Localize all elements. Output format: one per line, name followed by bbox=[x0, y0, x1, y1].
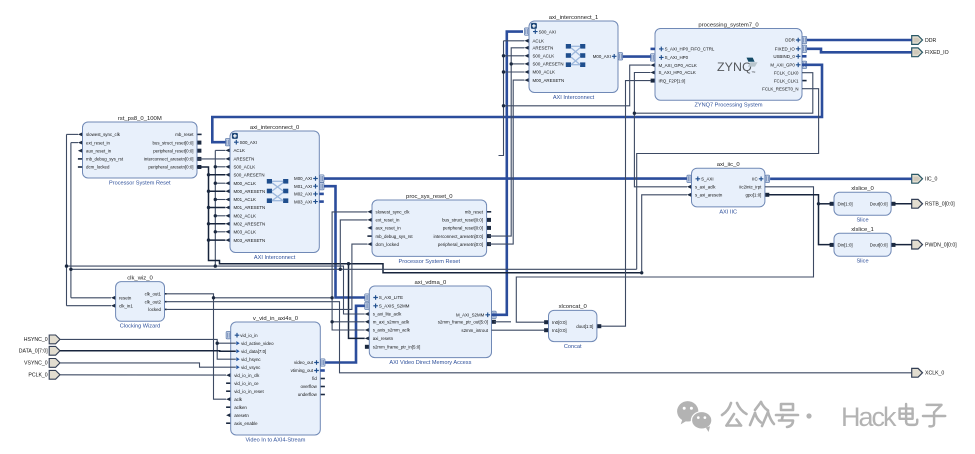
svg-text:Dout[0:0]: Dout[0:0] bbox=[870, 202, 888, 207]
block processing_system7_0 ZYNQ7 Processing System bbox=[650, 22, 806, 108]
svg-text:PWDN_0[0:0]: PWDN_0[0:0] bbox=[925, 243, 957, 249]
svg-text:bus_struct_reset[0:0]: bus_struct_reset[0:0] bbox=[152, 140, 193, 145]
svg-text:S00_ACLK: S00_ACLK bbox=[234, 165, 256, 170]
svg-text:clk_out2: clk_out2 bbox=[145, 299, 162, 304]
wire reset trunk left bbox=[70, 143, 72, 298]
svg-text:S00_ARESETN: S00_ARESETN bbox=[533, 62, 564, 67]
block axi_iic_0 AXI IIC bbox=[687, 162, 770, 215]
svg-text:mb_debug_sys_rst: mb_debug_sys_rst bbox=[86, 157, 124, 162]
svg-text:s_axi_aclk: s_axi_aclk bbox=[695, 185, 716, 190]
svg-text:Dout[0:0]: Dout[0:0] bbox=[870, 243, 888, 248]
svg-text:M01_ACLK: M01_ACLK bbox=[234, 197, 257, 202]
wire clock link to M_AXI_GP0_ACLK riser bbox=[504, 65, 651, 106]
svg-text:peripheral_aresetn[0:0]: peripheral_aresetn[0:0] bbox=[148, 165, 193, 170]
svg-text:vid_io_in: vid_io_in bbox=[240, 333, 258, 338]
svg-text:M00_AXI: M00_AXI bbox=[593, 54, 611, 59]
svg-text:M03_ACLK: M03_ACLK bbox=[234, 230, 257, 235]
svg-text:M00_ARESETN: M00_ARESETN bbox=[533, 78, 565, 83]
svg-text:aux_reset_in: aux_reset_in bbox=[86, 148, 112, 153]
svg-text:proc_sys_reset_0: proc_sys_reset_0 bbox=[406, 194, 453, 200]
svg-text:aresetn: aresetn bbox=[234, 413, 249, 418]
svg-text:axis_enable: axis_enable bbox=[234, 421, 258, 426]
svg-text:v_vid_in_axi4s_0: v_vid_in_axi4s_0 bbox=[253, 316, 299, 322]
svg-text:Clocking Wizard: Clocking Wizard bbox=[120, 324, 160, 330]
wire video_out to S_AXIS_S2MM bus bbox=[325, 306, 365, 363]
block rst_ps8_0_100M Processor System Reset bbox=[78, 116, 202, 187]
svg-text:S00_ARESETN: S00_ARESETN bbox=[234, 173, 265, 178]
wire proc interconnect_aresetn to interconnect_1 ARESETN bbox=[489, 48, 525, 236]
block xlslice_1 Slice bbox=[830, 227, 896, 265]
output port FIXED_IO bbox=[912, 48, 949, 57]
input port HSYNC_0 bbox=[24, 335, 60, 344]
svg-text:DDR: DDR bbox=[785, 38, 795, 43]
svg-text:s2mm_frame_ptr_in[5:0]: s2mm_frame_ptr_in[5:0] bbox=[373, 345, 421, 350]
wire M00_AXI to axi_iic S_AXI bus bbox=[324, 177, 687, 180]
svg-text:HSYNC_0: HSYNC_0 bbox=[24, 337, 48, 343]
watermark text gongzhonghao hack dianzi bbox=[722, 402, 945, 432]
svg-text:axi_vdma_0: axi_vdma_0 bbox=[415, 280, 447, 286]
svg-text:rst_ps8_0_100M: rst_ps8_0_100M bbox=[118, 116, 162, 122]
svg-text:s_axi_aresetn: s_axi_aresetn bbox=[695, 193, 723, 198]
svg-text:ZYNQ: ZYNQ bbox=[717, 60, 752, 74]
svg-text:peripheral_aresetn[0:0]: peripheral_aresetn[0:0] bbox=[438, 242, 483, 247]
svg-text:Slice: Slice bbox=[856, 259, 868, 265]
svg-text:AXI Video Direct Memory Access: AXI Video Direct Memory Access bbox=[389, 360, 471, 366]
wire IIC bus to external port bbox=[770, 178, 912, 181]
watermark wechat icon bbox=[677, 401, 712, 432]
wire peripheral_aresetn branch to vdma axi_resetn bbox=[349, 264, 365, 339]
wire M01_AXI to axi_vdma S_AXI_LITE bus bbox=[324, 186, 365, 297]
svg-text:DDR: DDR bbox=[925, 38, 936, 44]
svg-text:M_AXI_GP0_ACLK: M_AXI_GP0_ACLK bbox=[659, 63, 697, 68]
svg-text:VSYNC_0: VSYNC_0 bbox=[24, 361, 48, 367]
wire PCLK_0 to vid_io_in_clk bbox=[60, 374, 226, 376]
svg-text:clk_wiz_0: clk_wiz_0 bbox=[127, 275, 153, 281]
svg-text:ACLK: ACLK bbox=[234, 148, 246, 153]
svg-text:M01_ARESETN: M01_ARESETN bbox=[234, 205, 266, 210]
svg-text:axi_interconnect_1: axi_interconnect_1 bbox=[549, 15, 598, 21]
svg-text:ACLK: ACLK bbox=[533, 39, 545, 44]
svg-text:m_axi_s2mm_aclk: m_axi_s2mm_aclk bbox=[373, 320, 410, 325]
svg-text:xlslice_0: xlslice_0 bbox=[851, 186, 874, 192]
svg-text:M00_ARESETN: M00_ARESETN bbox=[234, 189, 266, 194]
svg-text:ZYNQ7 Processing System: ZYNQ7 Processing System bbox=[694, 103, 762, 109]
svg-text:S00_AXI: S00_AXI bbox=[539, 29, 556, 34]
wire stub vid_active_video bbox=[217, 342, 236, 344]
svg-text:IRQ_F2P[1:0]: IRQ_F2P[1:0] bbox=[659, 78, 686, 83]
block proc_sys_reset_0 Processor System Reset bbox=[367, 194, 491, 265]
svg-text:mb_reset: mb_reset bbox=[175, 132, 194, 137]
svg-text:Din[1:0]: Din[1:0] bbox=[838, 202, 853, 207]
block xlslice_0 Slice bbox=[830, 186, 896, 224]
wire clock trunk to rst_ps8 slowest_sync_clk and clk_in1 bbox=[66, 134, 68, 305]
svg-text:ext_reset_in: ext_reset_in bbox=[376, 218, 400, 223]
svg-text:slowest_sync_clk: slowest_sync_clk bbox=[376, 210, 411, 215]
svg-text:S_AXIS_S2MM: S_AXIS_S2MM bbox=[379, 304, 410, 309]
svg-text:FCLK_RESET0_N: FCLK_RESET0_N bbox=[762, 86, 798, 91]
wire clk_out1 to vid aclk bbox=[167, 294, 226, 399]
wire stub S00_ARESETN bbox=[511, 63, 524, 65]
svg-text:peripheral_reset[0:0]: peripheral_reset[0:0] bbox=[153, 148, 193, 153]
svg-text:M_AXI_S2MM: M_AXI_S2MM bbox=[456, 313, 485, 318]
svg-text:FIXED_IO: FIXED_IO bbox=[775, 47, 796, 52]
wire riser to proc ext_reset_in bbox=[340, 220, 367, 269]
svg-text:AXI IIC: AXI IIC bbox=[719, 209, 737, 215]
wire concat dout to IRQ_F2P bbox=[601, 81, 651, 327]
svg-text:fid: fid bbox=[312, 376, 317, 381]
wire S_AXI_HP0_ACLK riser down to axi_iic s_axi_aclk bbox=[634, 73, 687, 187]
output port DDR bbox=[912, 36, 937, 45]
svg-text:slowest_sync_clk: slowest_sync_clk bbox=[86, 132, 121, 137]
wire HSYNC_0 to vid_active_video and vid_hsync bbox=[60, 339, 236, 359]
svg-text:Din[1:0]: Din[1:0] bbox=[838, 243, 853, 248]
svg-text:axi_interconnect_0: axi_interconnect_0 bbox=[250, 125, 300, 131]
svg-text:M00_ACLK: M00_ACLK bbox=[234, 181, 257, 186]
wire clk_out1 riser proc slowest and vdma aclks bbox=[332, 212, 367, 330]
svg-text:axi_resetn: axi_resetn bbox=[373, 336, 394, 341]
svg-text:FCLK_CLK1: FCLK_CLK1 bbox=[774, 78, 799, 83]
wire DATA_0 to vid_data bbox=[60, 350, 236, 352]
svg-text:Concat: Concat bbox=[564, 344, 582, 350]
wire stub slice0 din bbox=[819, 203, 831, 205]
svg-text:M02_ACLK: M02_ACLK bbox=[234, 214, 257, 219]
svg-text:S_AXI: S_AXI bbox=[701, 177, 713, 182]
svg-text:S00_ACLK: S00_ACLK bbox=[533, 54, 555, 59]
svg-text:M03_AXI: M03_AXI bbox=[294, 199, 312, 204]
wire stubs ARESETN rows bbox=[209, 175, 226, 240]
input port DATA_0[7:0] bbox=[19, 346, 60, 355]
svg-text:s2mm_introut: s2mm_introut bbox=[461, 328, 488, 333]
svg-text:Processor System Reset: Processor System Reset bbox=[109, 180, 171, 186]
svg-text:S_AXI_LITE: S_AXI_LITE bbox=[379, 295, 403, 300]
block clk_wiz_0 Clocking Wizard bbox=[111, 275, 167, 329]
svg-text:AXI Interconnect: AXI Interconnect bbox=[254, 255, 296, 261]
wire stubs ACLK rows bbox=[215, 150, 225, 231]
svg-text:IIC_0: IIC_0 bbox=[925, 177, 938, 183]
svg-text:ARESETN: ARESETN bbox=[234, 157, 255, 162]
wire DDR bus to external port bbox=[807, 39, 912, 42]
svg-text:Video In to AXI4-Stream: Video In to AXI4-Stream bbox=[246, 437, 306, 443]
svg-text:M03_ARESETN: M03_ARESETN bbox=[234, 238, 266, 243]
svg-text:PCLK_0: PCLK_0 bbox=[28, 373, 47, 379]
wire FCLK_CLK0 from PS7 bbox=[634, 73, 812, 114]
svg-text:vid_vsync: vid_vsync bbox=[241, 365, 261, 370]
svg-text:peripheral_reset[0:0]: peripheral_reset[0:0] bbox=[443, 226, 483, 231]
output port PWDN_0[0:0] bbox=[912, 240, 958, 249]
wire ACLK column axi_interconnect_0 bbox=[214, 150, 216, 266]
svg-text:processing_system7_0: processing_system7_0 bbox=[698, 22, 759, 28]
output port IIC_0 bbox=[912, 174, 938, 183]
svg-text:M02_ARESETN: M02_ARESETN bbox=[234, 222, 266, 227]
wire clock channel to clk_wiz and interconnect_0 bbox=[67, 266, 365, 314]
svg-text:FIXED_IO: FIXED_IO bbox=[925, 50, 949, 56]
wire FIXED_IO bus to external port bbox=[807, 49, 912, 53]
svg-text:overflow: overflow bbox=[300, 384, 317, 389]
svg-text:S00_AXI: S00_AXI bbox=[240, 140, 257, 145]
svg-text:vid_active_video: vid_active_video bbox=[241, 341, 274, 346]
svg-text:interconnect_aresetn[0:0]: interconnect_aresetn[0:0] bbox=[434, 234, 484, 239]
svg-text:bus_struct_reset[0:0]: bus_struct_reset[0:0] bbox=[442, 218, 483, 223]
wire slice0 Dout to RSTB_0 bbox=[895, 203, 911, 205]
svg-text:S_AXI_HP0_ACLK: S_AXI_HP0_ACLK bbox=[659, 70, 696, 75]
svg-text:iic2intc_irpt: iic2intc_irpt bbox=[739, 185, 762, 190]
wire iic2intc_irpt to concat In0 bbox=[516, 187, 813, 322]
svg-text:XCLK_0: XCLK_0 bbox=[925, 371, 944, 377]
svg-text:FCLK_CLK0: FCLK_CLK0 bbox=[774, 70, 799, 75]
svg-text:IIC: IIC bbox=[752, 177, 758, 182]
wire M_AXI_GP0 bus to axi_interconnect_0 S00_AXI bbox=[212, 65, 822, 142]
svg-text:underflow: underflow bbox=[298, 392, 318, 397]
svg-text:AXI Interconnect: AXI Interconnect bbox=[553, 95, 595, 101]
svg-text:In0[0:0]: In0[0:0] bbox=[552, 320, 567, 325]
svg-text:RSTB_0[0:0]: RSTB_0[0:0] bbox=[925, 202, 955, 208]
wire clk_out1 horizontal branch bbox=[214, 297, 333, 299]
svg-text:mb_reset: mb_reset bbox=[465, 210, 484, 215]
svg-text:xlslice_1: xlslice_1 bbox=[851, 227, 874, 233]
svg-text:S_AXI_HP0: S_AXI_HP0 bbox=[665, 55, 689, 60]
wire clk_out2 to XCLK bbox=[167, 302, 912, 373]
block xlconcat_0 Concat bbox=[544, 304, 601, 350]
wire s2mm_introut to concat In1 bbox=[492, 329, 545, 331]
svg-text:ARESETN: ARESETN bbox=[533, 46, 554, 51]
wire stub m_axi_s2mm_aclk bbox=[332, 321, 365, 323]
wire peripheral_aresetn net rst_ps8 bbox=[197, 167, 642, 273]
wire FCLK_RESET0_N down to channel bbox=[637, 89, 819, 270]
svg-text:s2mm_frame_ptr_out[5:0]: s2mm_frame_ptr_out[5:0] bbox=[438, 320, 488, 325]
output port RSTB_0[0:0] bbox=[912, 199, 956, 208]
svg-text:clk_in1: clk_in1 bbox=[119, 303, 133, 308]
svg-text:vid_io_in_reset: vid_io_in_reset bbox=[234, 389, 264, 394]
svg-text:xlconcat_0: xlconcat_0 bbox=[559, 304, 588, 310]
wire s2mm_frame_ptr_out stub bbox=[494, 321, 511, 323]
wire locked to proc dcm_locked bbox=[167, 244, 368, 309]
wire stub clk_in1 bbox=[67, 305, 112, 307]
wire stub resetn bbox=[71, 297, 111, 299]
svg-text:S_AXI_HP0_FIFO_CTRL: S_AXI_HP0_FIFO_CTRL bbox=[665, 47, 715, 52]
svg-text:Slice: Slice bbox=[856, 218, 868, 224]
svg-text:dcm_locked: dcm_locked bbox=[376, 242, 400, 247]
wire slice1 Dout to PWDN_0 bbox=[895, 244, 911, 246]
svg-text:Hack: Hack bbox=[841, 402, 897, 432]
svg-text:resetn: resetn bbox=[119, 296, 132, 301]
wire stub slowest_sync_clk bbox=[67, 133, 79, 135]
svg-text:DATA_0[7:0]: DATA_0[7:0] bbox=[19, 349, 48, 355]
wire proc peripheral_aresetn to interconnect_1 M00_ARESETN bbox=[489, 80, 525, 244]
svg-text:vid_hsync: vid_hsync bbox=[241, 357, 261, 362]
svg-text:gpo[1:0]: gpo[1:0] bbox=[746, 193, 762, 198]
svg-text:Processor System Reset: Processor System Reset bbox=[399, 259, 461, 265]
svg-text:aclken: aclken bbox=[234, 405, 247, 410]
block v_vid_in_axi4s_0 Video In to AXI4-Stream bbox=[226, 316, 325, 444]
wire stub ext_reset_in bbox=[71, 142, 78, 144]
wire gpo to slices bbox=[767, 195, 830, 245]
wire VSYNC_0 to vid_vsync bbox=[60, 363, 236, 367]
svg-text:ext_reset_in: ext_reset_in bbox=[86, 140, 110, 145]
svg-text:TM: TM bbox=[752, 70, 756, 74]
svg-text:dcm_locked: dcm_locked bbox=[86, 165, 110, 170]
wire M_AXI_S2MM bus to axi_interconnect_1 S00_AXI bbox=[492, 32, 524, 315]
svg-text:vtiming_out: vtiming_out bbox=[291, 368, 314, 373]
svg-text:axi_iic_0: axi_iic_0 bbox=[717, 162, 741, 168]
svg-text:clk_out1: clk_out1 bbox=[145, 292, 162, 297]
svg-text:interconnect_aresetn[0:0]: interconnect_aresetn[0:0] bbox=[144, 157, 194, 162]
svg-text:s_axi_lite_aclk: s_axi_lite_aclk bbox=[373, 312, 402, 317]
svg-text:mb_debug_sys_rst: mb_debug_sys_rst bbox=[376, 234, 414, 239]
svg-text:M00_AXI: M00_AXI bbox=[294, 176, 312, 181]
wire riser to iic s_axi_aresetn bbox=[642, 195, 687, 273]
wire stubs interconnect_1 clocks bbox=[504, 41, 525, 72]
svg-text:locked: locked bbox=[148, 307, 161, 312]
block axi_interconnect_1 AXI Interconnect bbox=[524, 15, 622, 101]
svg-text:video_out: video_out bbox=[294, 360, 314, 365]
svg-text:s_axis_s2mm_aclk: s_axis_s2mm_aclk bbox=[373, 328, 411, 333]
wire M00_AXI to S_AXI_HP0 bus bbox=[623, 55, 651, 58]
svg-text:M02_AXI: M02_AXI bbox=[294, 192, 312, 197]
svg-text:M01_AXI: M01_AXI bbox=[294, 184, 312, 189]
input port VSYNC_0 bbox=[24, 359, 60, 368]
block axi_interconnect_0 AXI Interconnect bbox=[225, 125, 324, 261]
wire clock riser axi_interconnect_1 clocks bbox=[499, 41, 504, 156]
wire reset line to ext_reset_in resetn and proc bbox=[71, 268, 637, 270]
svg-text:vid_io_in_clk: vid_io_in_clk bbox=[234, 373, 260, 378]
svg-text:vid_data[7:0]: vid_data[7:0] bbox=[241, 349, 266, 354]
block axi_vdma_0 AXI Video Direct Memory Access bbox=[365, 280, 496, 366]
svg-text:vid_io_in_ce: vid_io_in_ce bbox=[234, 381, 259, 386]
wire interconnect_aresetn to ARESETN bbox=[197, 158, 225, 160]
svg-text:aclk: aclk bbox=[234, 397, 243, 402]
svg-text:aux_reset_in: aux_reset_in bbox=[376, 226, 402, 231]
svg-text:M00_ACLK: M00_ACLK bbox=[533, 70, 556, 75]
svg-text:In1[0:0]: In1[0:0] bbox=[552, 328, 567, 333]
svg-text:dout[1:0]: dout[1:0] bbox=[576, 324, 593, 329]
input port PCLK_0 bbox=[28, 370, 60, 379]
svg-text:USBIND_0: USBIND_0 bbox=[773, 54, 795, 59]
svg-text:M_AXI_GP0: M_AXI_GP0 bbox=[770, 63, 795, 68]
output port XCLK_0 bbox=[912, 368, 945, 377]
